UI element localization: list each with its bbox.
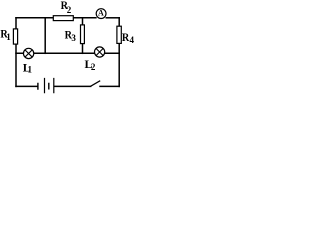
svg-text:1: 1 (28, 65, 33, 75)
svg-text:4: 4 (130, 35, 135, 45)
svg-text:2: 2 (91, 62, 96, 72)
svg-text:1: 1 (6, 32, 11, 42)
svg-text:3: 3 (71, 33, 76, 43)
svg-text:A: A (98, 9, 104, 18)
svg-text:2: 2 (67, 5, 72, 15)
